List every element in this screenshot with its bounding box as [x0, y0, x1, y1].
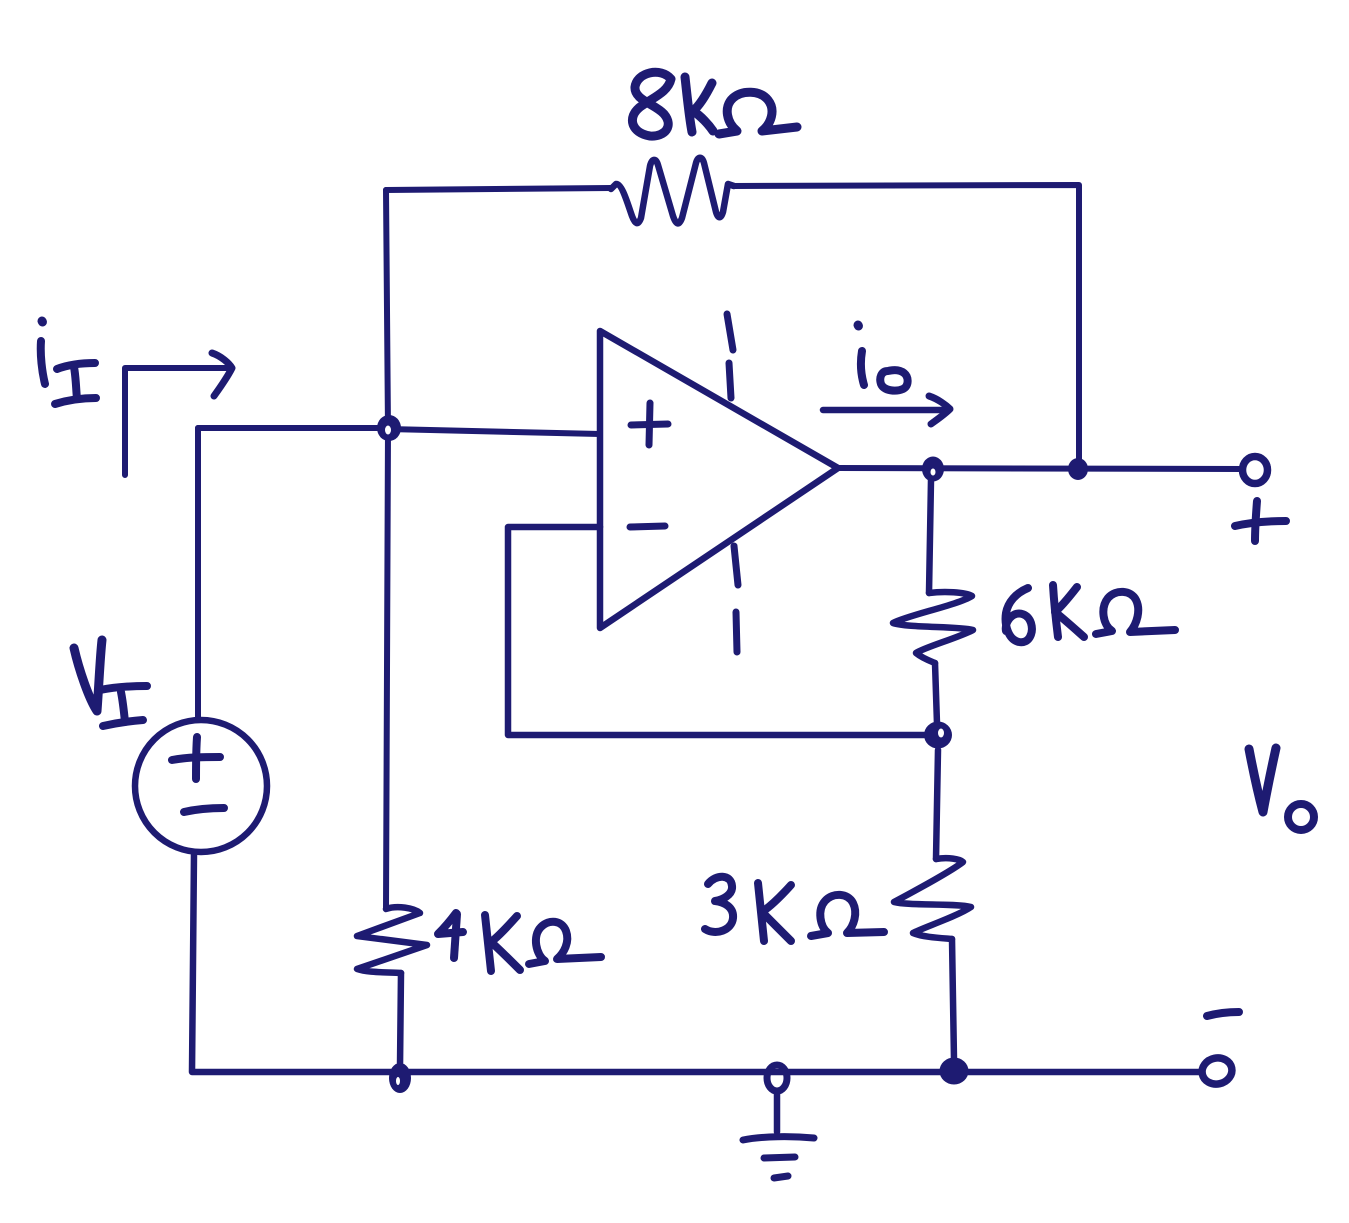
- wire: input node to op-amp + input: [388, 429, 600, 434]
- wire: top horizontal left of 8k resistor: [386, 188, 611, 190]
- label Vo: [1249, 748, 1314, 830]
- label + at output: [1235, 501, 1286, 541]
- node: ground tap on rail (open ring): [767, 1065, 787, 1091]
- wire: 4k bottom to rail node: [400, 973, 401, 1066]
- label - at bottom terminal: [1207, 1012, 1239, 1016]
- node: 3k to bottom rail: [940, 1058, 969, 1085]
- resistor 8kΩ (horizontal squiggle): [611, 158, 734, 224]
- wire: from VI top corner to + input node and on to op-amp: [198, 425, 388, 431]
- output terminal -: [1200, 1055, 1235, 1087]
- label 8kΩ value: [632, 72, 797, 136]
- label io current: [858, 325, 908, 391]
- node: 4k to bottom rail: [389, 1063, 411, 1093]
- label VI: [74, 640, 147, 726]
- resistor 3kΩ (vertical squiggle): [894, 858, 971, 939]
- voltage source VI: [135, 720, 267, 852]
- resistor 6kΩ (vertical squiggle): [893, 592, 973, 663]
- arrow for io: [823, 396, 950, 424]
- wire: 6k bottom to mid node: [935, 663, 937, 724]
- node: output node 1: [922, 457, 944, 482]
- wire: from VI bottom down and along bottom rail to - terminal: [192, 853, 1199, 1072]
- node A: input node: [377, 415, 401, 441]
- label 6KΩ: [1006, 585, 1175, 642]
- wire: feedback vertical from input node up to 8k resistor row: [386, 190, 388, 430]
- ground: [743, 1091, 814, 1178]
- label 3KΩ: [705, 877, 884, 941]
- output terminal +: [1243, 457, 1268, 484]
- wire: top horizontal right of 8k to corner and down to output node 2: [733, 185, 1079, 462]
- wire: mid node down to 3k resistor: [936, 750, 938, 859]
- wire: - input of op-amp to feedback corner: [508, 527, 924, 735]
- label 4KΩ: [438, 913, 601, 971]
- wire: output node1 down to 6k resistor: [929, 480, 931, 593]
- wire: 3k bottom to rail node: [952, 939, 954, 1060]
- arrow for iI: [125, 353, 232, 475]
- wire: op-amp output to + terminal: [838, 468, 1243, 469]
- node: 6k/3k junction: [924, 722, 952, 749]
- node: output node 2 (feedback junction): [1068, 458, 1088, 480]
- op-amp power dashed line: [727, 314, 738, 652]
- label iI current: [41, 321, 96, 404]
- resistor 4kΩ (vertical squiggle): [357, 907, 427, 973]
- wire: vertical from input node down to 4k resistor: [386, 429, 388, 909]
- wire: vertical from VI top up to input row: [195, 428, 201, 720]
- op-amp: [600, 331, 838, 628]
